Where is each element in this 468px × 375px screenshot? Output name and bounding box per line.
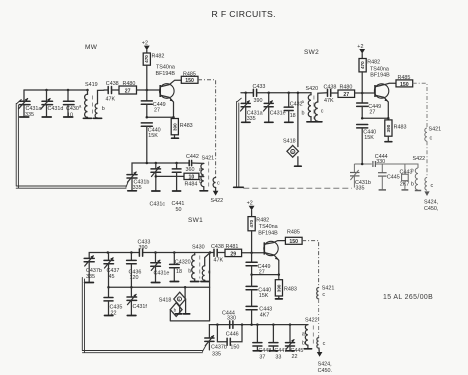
capacitor C437b 335 (variable) <box>84 255 102 282</box>
capacitor C433 390 (SW1) <box>138 240 151 257</box>
svg-text:S420: S420 <box>306 86 319 92</box>
capacitor C431e (SW1 variable) <box>151 253 170 283</box>
wire collector to S421 (SW1) <box>302 241 319 288</box>
svg-text:C431c: C431c <box>150 202 166 208</box>
transistor TS40na BF194B (SW1) <box>258 224 285 275</box>
capacitor C433 390 (SW2) <box>253 84 266 104</box>
capacitor C449 27 (SW2) <box>357 93 381 118</box>
svg-text:150: 150 <box>185 78 194 84</box>
capacitor C437 45 (variable) <box>104 253 119 288</box>
svg-text:22: 22 <box>292 354 298 360</box>
svg-text:C431d: C431d <box>48 106 64 112</box>
transformer S430 <box>188 245 211 282</box>
capacitor C435 22 <box>104 287 122 316</box>
svg-text:27: 27 <box>343 92 349 98</box>
wire collector dash-dot to S421 (SW2) <box>413 83 427 128</box>
switch S418 (SW1) <box>159 287 190 316</box>
svg-text:10: 10 <box>189 174 195 180</box>
svg-text:S418: S418 <box>283 139 296 145</box>
svg-text:335: 335 <box>212 351 221 357</box>
capacitor C441 50 <box>172 163 185 213</box>
svg-text:c: c <box>431 183 434 189</box>
capacitor C444 330 (SW2) <box>373 154 388 167</box>
capacitor C431a 335 (SW2 variable) <box>241 93 263 123</box>
capacitor C431c (variable) <box>150 163 166 208</box>
svg-text:C430: C430 <box>66 106 79 112</box>
svg-text:R482: R482 <box>152 54 165 60</box>
svg-text:a: a <box>199 167 202 173</box>
svg-text:S421: S421 <box>202 156 215 162</box>
svg-text:C433: C433 <box>253 84 266 90</box>
node R482 base junction (SW2) <box>361 92 364 95</box>
svg-text:150: 150 <box>230 345 239 351</box>
gang link MW (mechanical) <box>16 100 128 189</box>
svg-text:b: b <box>199 179 202 185</box>
wire collector to S421 <box>198 80 216 178</box>
svg-text:470: 470 <box>360 61 365 69</box>
wire SW2 lower bus y=164 (faint) <box>354 164 418 168</box>
svg-text:S430: S430 <box>192 245 205 251</box>
resistor R482 (vertical) <box>143 53 164 90</box>
svg-text:2K7 b: 2K7 b <box>400 182 414 188</box>
resistor R483 (vertical, MW) <box>171 117 192 138</box>
svg-text:TS40na: TS40na <box>156 65 175 71</box>
resistor R482 (vertical, SW2) <box>359 59 380 94</box>
resistor R485 150 (SW2) <box>396 75 413 88</box>
resistor R484 10 <box>184 173 204 187</box>
svg-text:C437b: C437b <box>211 345 227 351</box>
svg-text:S421: S421 <box>322 285 335 291</box>
capacitor C437b 335 (SW1 bottom, variable) <box>205 325 227 358</box>
svg-text:S422: S422 <box>211 198 224 204</box>
resistor R480 27 <box>119 81 160 95</box>
transformer S422 (SW1) <box>302 318 326 349</box>
svg-text:15K: 15K <box>364 135 374 141</box>
wire MW lower bus y=163 <box>132 163 189 175</box>
svg-text:29: 29 <box>230 251 236 257</box>
wire emitter connector <box>147 116 174 118</box>
svg-text:c: c <box>322 292 325 298</box>
svg-text:C442: C442 <box>186 154 199 160</box>
svg-text:18: 18 <box>290 113 296 119</box>
svg-text:b: b <box>174 308 177 313</box>
svg-text:S424,: S424, <box>424 199 439 205</box>
svg-text:47K: 47K <box>214 258 224 264</box>
svg-text:330: 330 <box>227 316 236 322</box>
svg-text:47K: 47K <box>106 97 116 103</box>
resistor 2K7 C443b (SW2) <box>400 164 415 190</box>
svg-text:b: b <box>102 106 105 112</box>
resistor R485 150 (SW1) <box>285 229 302 245</box>
svg-text:TS40na: TS40na <box>259 224 278 230</box>
capacitor C431f (variable) <box>127 287 147 315</box>
svg-text:a: a <box>302 332 305 338</box>
svg-text:S418: S418 <box>159 298 172 304</box>
wire SW2 top bus y=92.7 <box>241 92 253 94</box>
transformer S420 <box>302 86 328 122</box>
supply +2 SW1 <box>247 201 255 217</box>
wire SW1 mid bus y=287.2 <box>109 286 210 288</box>
capacitor C431d (variable) <box>41 90 63 117</box>
capacitor C438 47K <box>104 81 119 103</box>
resistor R481 29 <box>225 244 242 257</box>
wire S418 enclosure loop <box>170 253 209 321</box>
svg-text:S422: S422 <box>413 156 426 162</box>
svg-text:37: 37 <box>259 354 265 360</box>
svg-text:SW2: SW2 <box>304 49 319 56</box>
svg-text:SW1: SW1 <box>188 217 203 224</box>
supply +2 MW <box>142 41 150 54</box>
capacitor C442 360 <box>186 154 204 173</box>
svg-text:S422: S422 <box>305 318 318 324</box>
svg-text:50: 50 <box>176 207 182 213</box>
svg-text:27: 27 <box>154 108 160 114</box>
node SW1 bottom bus junctions <box>216 323 219 326</box>
svg-text:335: 335 <box>86 274 95 280</box>
resistor R482 (vertical, SW1) <box>248 217 269 253</box>
capacitor C449 27 (SW1) <box>246 253 270 276</box>
gang link SW2 (mechanical) <box>234 98 352 188</box>
svg-text:C450,: C450, <box>424 206 439 212</box>
svg-text:BF194B: BF194B <box>156 71 176 77</box>
node SW1 top bus junctions <box>107 251 110 254</box>
svg-text:c: c <box>321 109 324 115</box>
svg-text:S424,: S424, <box>318 362 333 368</box>
node top bus junctions <box>45 89 48 92</box>
svg-text:R485: R485 <box>287 229 300 235</box>
capacitor C440 15K <box>141 123 160 163</box>
capacitor C445 (SW2) <box>378 164 400 190</box>
svg-text:c: c <box>217 181 220 187</box>
capacitor C4320 18 <box>170 253 191 282</box>
node SW1 mid bus junctions <box>107 286 110 289</box>
wire SW1 bottom bus y=324.6 <box>209 324 308 326</box>
svg-text:150: 150 <box>400 82 409 88</box>
svg-text:R483: R483 <box>394 125 407 131</box>
svg-text:335: 335 <box>356 185 365 191</box>
transformer S421 (MW) <box>199 156 220 191</box>
capacitor C440 15K (SW2) <box>357 125 376 165</box>
resistor R485 150 <box>181 72 198 85</box>
resistor R483 (vertical, SW2) <box>385 118 407 141</box>
svg-text:390: 390 <box>254 98 263 104</box>
node base junction <box>146 89 149 92</box>
svg-text:18: 18 <box>176 269 182 275</box>
svg-text:S421: S421 <box>429 127 442 133</box>
svg-text:C431f: C431f <box>133 304 148 310</box>
capacitor C431b 335 (variable) <box>127 172 149 191</box>
svg-text:C445: C445 <box>387 174 400 180</box>
capacitor C432a 18 <box>284 93 304 123</box>
node S424 C450 output arrow (SW1) <box>317 348 332 374</box>
capacitor C431a 335 (variable) <box>19 90 42 118</box>
svg-text:b: b <box>188 269 191 275</box>
svg-text:15 AL 265/00B: 15 AL 265/00B <box>383 294 433 301</box>
capacitor C438 47K (SW1) <box>211 244 224 264</box>
capacitor C445 22 (trimmer) <box>286 325 304 360</box>
capacitor C431e (SW2 variable) <box>264 93 286 123</box>
svg-text:470: 470 <box>144 55 149 63</box>
capacitor C448 37 <box>253 325 271 361</box>
resistor R480 27 (SW2) <box>338 84 374 98</box>
transformer S419 <box>83 82 104 118</box>
svg-text:470: 470 <box>249 219 254 227</box>
svg-text:c: c <box>430 136 433 142</box>
svg-text:BF194B: BF194B <box>370 73 390 79</box>
gang link SW1 (mechanical) <box>82 278 206 353</box>
svg-text:33: 33 <box>275 354 281 360</box>
svg-text:4K7: 4K7 <box>260 312 270 318</box>
switch S418 (SW2) <box>283 91 301 166</box>
node S422 output arrow (MW) <box>211 188 224 205</box>
svg-text:b: b <box>302 341 305 347</box>
svg-text:360: 360 <box>186 167 195 173</box>
transistor TS40na BF194B (SW2) <box>370 67 396 119</box>
svg-text:47K: 47K <box>324 98 334 104</box>
svg-text:c: c <box>323 341 326 347</box>
svg-text:15K: 15K <box>148 133 158 139</box>
svg-text:S419: S419 <box>85 82 98 88</box>
capacitor C440 15K (SW1) <box>246 275 271 307</box>
svg-text:390: 390 <box>276 284 281 292</box>
svg-text:BF194B: BF194B <box>258 231 278 237</box>
svg-text:R483: R483 <box>284 286 297 292</box>
svg-text:b: b <box>302 111 305 117</box>
svg-text:390: 390 <box>172 123 177 131</box>
capacitor C438 47K (SW2) <box>324 84 339 104</box>
svg-text:C438: C438 <box>324 84 337 90</box>
svg-text:27: 27 <box>369 109 375 115</box>
capacitor C431b 335 (SW2 variable) <box>350 164 371 191</box>
transformer S422 (SW2) <box>413 156 434 191</box>
svg-text:R F CIRCUITS.: R F CIRCUITS. <box>212 9 276 19</box>
wire C431c to R484 <box>156 175 184 177</box>
coil S421 (SW2) <box>425 127 441 142</box>
wire dash-dot S421 to S422 (SW2) <box>426 141 428 177</box>
resistor R483 (vertical, SW1) <box>275 275 297 299</box>
svg-text:C431e: C431e <box>270 111 286 117</box>
node SW2 top bus junctions <box>244 91 247 94</box>
wire emitter connector (SW2) <box>362 117 388 119</box>
wire emitter connector (SW1) <box>252 274 279 276</box>
supply +2 SW2 <box>357 44 365 59</box>
node S424 C450 output arrow (SW2) <box>424 191 439 211</box>
svg-text:15K: 15K <box>259 293 269 299</box>
capacitor C436 120 <box>127 253 142 288</box>
coil S421 (SW1) <box>317 285 335 299</box>
svg-text:MW: MW <box>85 44 98 51</box>
svg-text:390: 390 <box>386 124 391 132</box>
wire dash-dot S421 to S422 (SW1) <box>318 299 320 338</box>
svg-text:27: 27 <box>125 89 131 95</box>
svg-text:R483: R483 <box>180 123 193 129</box>
svg-text:10: 10 <box>67 113 73 119</box>
svg-text:C446: C446 <box>226 332 239 338</box>
svg-text:335: 335 <box>25 112 34 118</box>
svg-text:330: 330 <box>376 159 385 165</box>
capacitor C444 330 (SW1) <box>222 310 236 328</box>
svg-text:45: 45 <box>109 274 115 280</box>
wire MW top bus y=90 <box>24 89 88 91</box>
svg-text:C450.: C450. <box>318 368 332 374</box>
transistor TS40na BF194B (MW) <box>156 65 182 118</box>
svg-text:335: 335 <box>247 116 256 122</box>
capacitor C449 27 (MW) <box>141 90 165 117</box>
svg-text:+2: +2 <box>247 201 253 207</box>
svg-text:R482: R482 <box>256 217 269 223</box>
svg-text:335: 335 <box>133 185 142 191</box>
capacitor C430 10 <box>64 90 83 119</box>
capacitor C443 4K7 <box>246 306 272 324</box>
wire SW1 top bus y=252.5 <box>89 253 139 259</box>
svg-text:R484: R484 <box>185 181 198 187</box>
svg-text:150: 150 <box>289 239 298 245</box>
capacitor C446 150 <box>217 325 242 351</box>
node C440 lower junction (SW2) <box>361 163 364 166</box>
svg-text:R482: R482 <box>367 60 380 66</box>
capacitor C447 33 <box>269 325 287 361</box>
